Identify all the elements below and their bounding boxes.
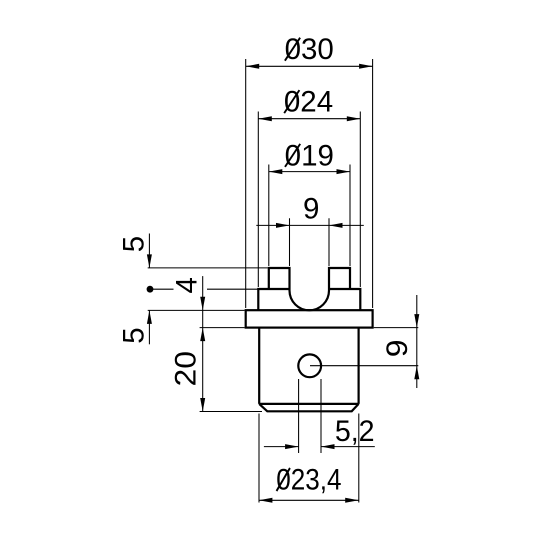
extension line flange bottom right [374, 327, 419, 329]
extension lines slot 9 [290, 218, 330, 266]
dimension 5 (step to flange top, left bottom) [117, 310, 152, 344]
dimension Ø23,4 (body diameter) [259, 463, 359, 503]
U-slot bottom arc [290, 289, 330, 310]
extension line prong top (left 5) [148, 267, 268, 269]
extension lines Ø23,4 [259, 414, 359, 503]
hole (5,2 cross hole) [298, 354, 321, 377]
svg-text:4: 4 [171, 277, 204, 293]
dimension 20 (body length) [169, 310, 206, 411]
flange outline (Ø30 collar) [246, 310, 373, 327]
dimension 9 (hole position, right) [380, 295, 419, 388]
extension lines Ø24 [258, 112, 360, 288]
right prong (Ø19 fork wall) [329, 268, 350, 289]
left prong (Ø19 fork wall) [269, 268, 290, 289]
svg-text:5: 5 [117, 327, 150, 343]
dimension Ø30 [246, 33, 373, 69]
dimension Ø19 [269, 139, 350, 174]
svg-text:20: 20 [169, 351, 203, 386]
dimension 4 (flange thickness) [171, 276, 206, 341]
extension lines Ø19 [269, 165, 350, 267]
extension line flange top [148, 309, 245, 311]
extension line body bottom [200, 411, 262, 413]
reference dot (chain dimension point) [147, 286, 154, 293]
extension lines hole 5,2 [299, 379, 321, 453]
svg-text:5,2: 5,2 [335, 416, 375, 448]
extension line step from dot [152, 288, 258, 290]
body outline (Ø23,4 shank with chamfer) [259, 328, 358, 412]
svg-text:9: 9 [380, 340, 414, 358]
extension line hole center [310, 365, 418, 367]
dimension 5,2 (hole diameter) [264, 416, 375, 449]
extension line flange bottom left [200, 327, 245, 329]
svg-text:9: 9 [303, 193, 319, 226]
dimension Ø24 [258, 86, 360, 122]
dimension 5 (prong height, left top) [117, 234, 152, 268]
block outline (Ø24 section) [258, 289, 360, 310]
dimension 9 (slot width) [256, 193, 364, 228]
svg-text:023,4: 023,4 [276, 463, 341, 496]
extension lines Ø30 [246, 59, 373, 308]
svg-text:5: 5 [117, 236, 150, 252]
